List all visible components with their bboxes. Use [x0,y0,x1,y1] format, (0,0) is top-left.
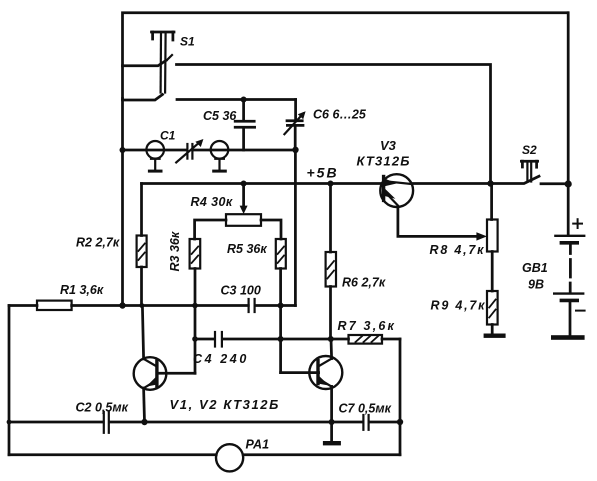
wire top loop [123,13,568,100]
svg-text:С3 100: С3 100 [221,284,261,298]
junction left vertical / C1 row [120,147,126,153]
svg-text:V3: V3 [380,138,397,153]
wire vertical C6 down to C3 row corner [294,150,297,306]
transistor V1 [134,357,195,390]
resistor R7 [349,335,383,344]
wire R7 right corner down [399,339,402,455]
transistor V2 [281,356,343,389]
junction R3 lead / C4 row [192,336,198,342]
capacitor C4 [215,332,222,347]
wire S2 right to battery junction [541,182,568,185]
svg-text:+5В: +5В [307,165,339,181]
junction C6 lead / C1 row [292,147,298,153]
svg-text:R2 2,7к: R2 2,7к [76,236,120,250]
wire C4/R7 row [195,338,400,341]
junction C5 top / box top row [241,97,247,103]
junction R6 top / +5V row [328,181,334,187]
wire bottom row [9,453,400,456]
capacitor C3 [249,299,255,312]
wire right vertical from top to battery [567,13,570,234]
wire S1 upper contact stub [123,61,167,66]
svg-text:R3 36к: R3 36к [168,231,182,271]
switch S2 [521,161,537,181]
ground under V2 [323,441,341,445]
potentiometer R4 [195,184,281,240]
battery GB1 [551,219,585,340]
junction R2 bottom / R1 row [139,303,144,308]
junction left vertical / R1 row [119,302,125,308]
wire V3 collector row to S2 [412,176,540,183]
junction left lower vertical / C2 row [7,420,12,425]
svg-text:С1: С1 [160,129,176,143]
junction V2 emitter / C7 row [329,419,335,425]
svg-text:С7 0,5мк: С7 0,5мк [339,402,392,416]
capacitor C1 variable [176,139,203,162]
junction R4 wiper / +5V row [241,181,247,187]
wire C2/C7 row [9,421,400,424]
jack socket left (under C1 row) [146,141,164,173]
wire left vertical upper (S1 to C1 row to R1 row) [121,99,124,307]
svg-text:РА1: РА1 [246,438,270,452]
wire V2 emitter lead to ground [330,386,333,441]
svg-text:С5 36: С5 36 [203,109,237,123]
svg-text:R4 30к: R4 30к [191,195,233,209]
jack socket right (under C1 row) [211,141,229,173]
junction R5 lead / C4 row [278,336,284,342]
ground under R9 [484,334,506,338]
svg-text:V1, V2 КТ312Б: V1, V2 КТ312Б [170,397,280,412]
svg-text:С2 0,5мк: С2 0,5мк [76,401,129,415]
resistor R5 [276,239,286,373]
wire S1 lower contact stub [123,95,163,101]
svg-text:R7 3,6к: R7 3,6к [338,319,397,333]
resistor R1 [37,301,72,310]
svg-text:9В: 9В [528,278,544,292]
wire V1 collector lead [142,306,143,359]
svg-text:R6 2,7к: R6 2,7к [342,276,386,290]
junction V1 emitter / C2 row [141,419,147,425]
svg-text:GB1: GB1 [522,261,548,275]
junction row B corner / V3 collector row [487,180,493,186]
capacitor C7 [363,415,368,430]
svg-text:С4 240: С4 240 [193,352,249,366]
wire row B from S1 to right corner down to S2 row [177,65,491,184]
junction R5 lead / C3 row [278,303,284,309]
svg-text:R5 36к: R5 36к [227,242,267,256]
switch S1 [152,32,175,93]
junction S2 right / battery vertical [565,180,572,187]
wire V1 emitter lead [142,388,146,422]
resistor R6 [326,184,336,340]
capacitor C6 variable [284,100,305,151]
wire V2 collector lead [330,339,333,359]
junction R3 lead / R1 row [192,303,198,309]
capacitor C2 [104,412,109,433]
svg-text:R9 4,7к: R9 4,7к [431,299,487,313]
capacitor C5 [235,100,254,151]
wire V3 emitter to R8 wiper [398,207,487,241]
junction C7 right / R7 corner vertical [397,419,403,425]
resistor R3 [190,239,201,373]
junction V2 collector / R7 row [328,336,334,342]
wire C1 row [123,149,296,152]
svg-text:КТ312Б: КТ312Б [357,154,411,169]
wire +5V row [142,182,384,185]
svg-text:S2: S2 [522,143,537,157]
wire box top (C5/C6 row) [177,98,296,101]
wire left vertical lower [8,306,11,455]
svg-text:R1 3,6к: R1 3,6к [60,283,104,297]
svg-text:S1: S1 [180,35,195,49]
svg-text:С6 6…25: С6 6…25 [313,108,367,122]
resistor R2 [137,184,147,306]
meter PA1 [216,444,243,471]
wire R1/C3 row [9,304,295,307]
transistor V3 KT312B [380,174,413,207]
svg-text:R8 4,7к: R8 4,7к [430,243,486,257]
resistor R9 [487,291,498,334]
potentiometer R8 [487,184,498,292]
